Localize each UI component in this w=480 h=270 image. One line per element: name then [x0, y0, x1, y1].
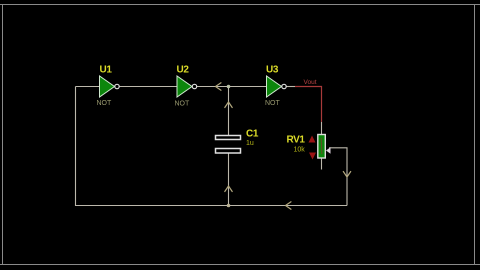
svg-text:1u: 1u — [246, 140, 254, 147]
svg-text:NOT: NOT — [175, 101, 191, 108]
svg-text:NOT: NOT — [265, 100, 281, 107]
svg-text:NOT: NOT — [97, 100, 113, 107]
svg-text:Vout: Vout — [304, 79, 317, 86]
svg-text:U2: U2 — [177, 65, 190, 76]
svg-text:U3: U3 — [266, 65, 279, 76]
svg-text:C1: C1 — [246, 129, 259, 140]
svg-text:U1: U1 — [100, 65, 113, 76]
svg-text:10k: 10k — [294, 147, 306, 154]
svg-text:RV1: RV1 — [287, 135, 306, 146]
